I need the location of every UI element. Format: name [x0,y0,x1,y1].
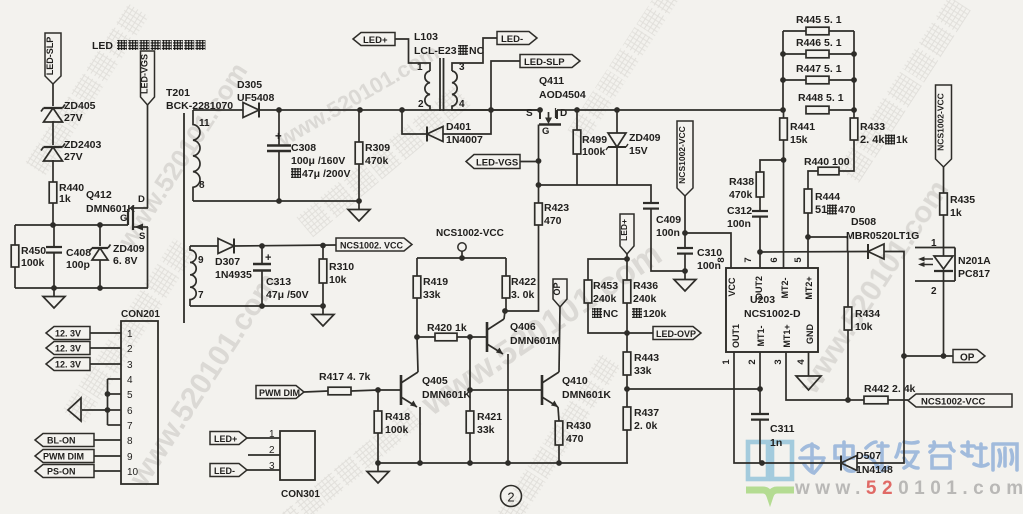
wire gate node horizontal [15,224,128,226]
svg-text:6. 8V: 6. 8V [113,255,138,267]
junction dot VCC node [682,230,688,236]
emitter arrow Q406 [487,344,503,354]
net flag 12.3V [46,342,90,355]
wire Q405 emitter down [417,406,420,408]
emitter arrow Q405 [401,397,417,407]
svg-text:NCS1002-D: NCS1002-D [744,308,801,320]
emitter arrow Q410 [542,397,558,407]
svg-text:R444: R444 [815,191,840,203]
svg-text:33k: 33k [477,424,495,436]
svg-text:T201: T201 [166,87,190,99]
wire R423 to Q406 collector node [505,225,539,311]
svg-text:NCS1002-VCC: NCS1002-VCC [921,397,986,408]
svg-text:240k: 240k [593,293,617,305]
svg-text:OP: OP [552,282,562,295]
junction dots OP line [901,353,907,359]
svg-text:3: 3 [127,360,133,371]
svg-text:R430: R430 [566,420,591,432]
svg-text:LED-: LED- [501,34,523,45]
net flag LED+ (vertical) [620,214,634,254]
junction dots R420 [414,334,420,340]
net flag PWM DIM (drive) [256,386,304,399]
junction dots gate node [50,222,56,228]
resistor R423 470 [535,203,543,225]
svg-text:100k: 100k [21,257,45,269]
svg-text:15V: 15V [629,145,648,157]
svg-text:R433: R433 [860,121,885,133]
op-amp U203 NCS1002-D [726,268,818,352]
svg-text:www.520101.com: www.520101.com [794,478,1023,499]
svg-text:NCS1002-VCC: NCS1002-VCC [936,93,946,151]
svg-text:G: G [542,126,549,137]
svg-text:NCS1002-VCC: NCS1002-VCC [677,126,687,184]
wire divider top [588,259,627,280]
svg-text:1: 1 [127,329,133,340]
wire 12.3V to CON201 [90,332,121,334]
junction dots bus right [574,107,580,113]
resistor R499 100k [576,110,578,130]
junction dot R443/R437 node [624,386,630,392]
capacitor C313 47u/50V [261,246,263,263]
svg-text:1k: 1k [950,207,962,219]
svg-text:2. 4k: 2. 4k [860,134,885,146]
svg-text:8: 8 [127,436,133,447]
svg-text:15k: 15k [790,134,808,146]
svg-text:5: 5 [793,257,804,263]
resistor R422 3.0k [505,258,507,276]
svg-text:33k: 33k [423,289,441,301]
svg-text:PS-ON: PS-ON [47,467,76,477]
ground (C308/R309) [358,201,360,210]
junction dot base node [467,387,473,393]
wire Q410 base line [470,389,542,391]
svg-text:R447 5. 1: R447 5. 1 [796,63,842,75]
wire LED-SLP flag to bus [491,61,520,110]
resistor R441 15k [783,110,785,118]
wire R440 to gate node [52,203,54,225]
wire Q406 base / R421 node [469,337,471,390]
svg-text:2: 2 [931,286,937,297]
wire aux ground rail [190,305,323,307]
svg-text:C311: C311 [770,423,795,435]
net flag PWM DIM (CON201) [35,450,94,463]
wire primary bottom rail [193,200,359,202]
junction dot R434/R442 node [845,397,851,403]
diode D401 1N4007 [402,110,427,134]
value label C308 alt (CJK or) [291,168,301,178]
svg-text:470: 470 [544,215,562,227]
svg-text:LCL-E23: LCL-E23 [414,45,457,57]
wire R437 to sense rail [627,462,628,464]
svg-text:CON201: CON201 [121,309,160,320]
svg-text:1N4148: 1N4148 [856,464,893,476]
wire L103 pin1 to LED+ flag [395,39,430,71]
capacitor C409 100n [643,202,659,204]
wire BL-ON [94,439,121,441]
svg-text:L103: L103 [414,31,438,43]
resistor R453 240k or NC [584,280,592,303]
wire PWM DIM [94,455,121,457]
svg-text:100μ /160V: 100μ /160V [291,155,345,167]
zener ZD2403 [44,146,63,148]
svg-text:3. 0k: 3. 0k [511,289,535,301]
ground (sense rail) [377,463,379,472]
svg-text:LED-VGS: LED-VGS [140,54,150,94]
svg-text:4: 4 [796,359,807,365]
svg-text:D508: D508 [851,216,876,228]
svg-text:R437: R437 [634,407,659,419]
svg-text:R434: R434 [855,308,880,320]
wire Q405 collector to R419 [417,337,418,372]
resistor R418 100k [377,390,379,411]
capacitor C311 1n [751,413,769,415]
svg-text:NCS1002-VCC: NCS1002-VCC [436,228,504,239]
svg-text:LED-SLP: LED-SLP [524,57,565,68]
svg-text:1: 1 [721,359,732,365]
svg-text:47μ /50V: 47μ /50V [266,289,309,301]
svg-text:R420 1k: R420 1k [427,322,467,334]
wire flag to R435 [943,167,945,193]
svg-text:5: 5 [127,390,133,401]
svg-text:R309: R309 [365,142,390,154]
svg-text:4: 4 [459,99,465,110]
svg-text:1k: 1k [896,134,908,146]
junction dot Q406 collector node [502,308,508,314]
svg-text:2. 0k: 2. 0k [634,420,658,432]
svg-text:ZD2403: ZD2403 [64,139,102,151]
svg-text:470k: 470k [729,189,753,201]
junction dot R438 tap [781,157,787,163]
svg-text:7: 7 [127,421,133,432]
resistor R419 33k [416,258,418,276]
svg-text:MBR0520LT1G: MBR0520LT1G [846,230,919,242]
svg-text:D305: D305 [237,79,262,91]
wire R435 to opto pin1 [943,215,945,256]
net flag NCS1002-VCC (bottom right) [908,394,1012,407]
svg-text:OUT1: OUT1 [731,324,741,348]
svg-text:33k: 33k [634,365,652,377]
svg-text:ZD409: ZD409 [113,243,145,255]
svg-text:LED+: LED+ [214,434,237,444]
svg-text:8: 8 [199,180,205,191]
net flag LED-VGS (main) [466,155,520,169]
net flag LED- (CON301) [210,464,247,477]
svg-text:100n: 100n [727,218,751,230]
junction dot OUT2 node [757,249,763,255]
svg-text:1N4935: 1N4935 [215,269,252,281]
svg-text:47μ /200V: 47μ /200V [302,168,350,180]
svg-text:9: 9 [127,452,133,463]
svg-text:Q412: Q412 [86,189,112,201]
wire ZD2403 to R440 [52,160,54,182]
wire IC pin2 MT1- down [759,352,761,414]
svg-text:LED+: LED+ [363,35,388,46]
wire OP line [904,355,953,357]
wire bus under L103 to Q411 [451,109,540,111]
svg-text:R422: R422 [511,276,536,288]
svg-text:D507: D507 [856,450,881,462]
wire IC pin4 GND [808,352,810,376]
svg-text:2: 2 [507,490,514,505]
svg-text:PWM DIM: PWM DIM [259,388,300,398]
svg-text:CON301: CON301 [281,489,320,500]
capacitor C312 100n [759,197,761,211]
resistor R437 2.0k [626,389,628,407]
net flag BL-ON [35,434,94,447]
wire D307 to VCC label [234,245,336,246]
svg-text:AOD4504: AOD4504 [539,89,586,101]
wire LED+ flag to divider [626,254,628,259]
wire LED+ to CON301 [247,437,280,439]
svg-text:+: + [265,252,271,264]
svg-text:6: 6 [127,406,133,417]
svg-text:R445 5. 1: R445 5. 1 [796,14,842,26]
svg-text:51: 51 [815,204,827,216]
net flag NCS1002-VCC (vertical, center) [677,121,693,196]
zener ZD409 6.8V [99,225,101,246]
svg-text:MT1-: MT1- [756,326,766,347]
svg-text:Q405: Q405 [422,375,448,387]
svg-text:2: 2 [127,344,133,355]
wire IC pin1 OUT1 down to sense rail [734,352,762,463]
svg-text:C308: C308 [291,142,316,154]
wire LED-SLP to ZD405 [52,84,54,106]
wire D508 to OP node [884,252,904,357]
wire emitter sense rail [378,462,628,464]
junction dots aux ground rail [259,303,265,309]
wire 12.3V to CON201 [90,363,121,365]
svg-text:R442 2. 4k: R442 2. 4k [864,383,916,395]
svg-text:10k: 10k [855,321,873,333]
svg-text:R499: R499 [582,134,607,146]
wire D305 to L103 pin2 (main bus left) [259,109,540,111]
wire R440 to R444 [808,171,818,189]
net flag NCS1002.VCC (aux) [336,238,412,251]
svg-text:12. 3V: 12. 3V [55,329,81,339]
wire VCC rail center [417,257,506,259]
svg-text:S: S [139,231,145,242]
wire Q410 collector to OP flag [559,307,560,372]
wire OUT2 line to D508 [760,251,868,254]
svg-text:+: + [275,131,282,143]
svg-text:11: 11 [199,118,210,129]
resistor R443 33k [626,333,628,352]
wire Q412 source down [147,227,149,288]
wire L103 pin3 to LED- flag [452,38,497,71]
wire OVP node to flag [627,332,653,334]
net flag LED- (top) [497,32,537,45]
wire IC pin3 MT1+ to R442 [786,352,848,400]
svg-text:6: 6 [769,257,780,262]
svg-text:R440 100: R440 100 [804,156,850,168]
junction dots pins 5-6 [105,391,111,397]
svg-text:R453: R453 [593,280,618,292]
wire R444 to MT2+ node [807,213,809,237]
svg-text:LED: LED [92,40,113,52]
wire Q406 emitter down [507,354,509,463]
wire Q412 drain to LED-VGS flag [147,105,149,208]
wire LED- to CON301 [247,469,280,471]
svg-text:MT1+: MT1+ [782,324,792,347]
resistor R440 100 [818,167,839,175]
svg-text:9: 9 [198,255,204,266]
svg-text:D401: D401 [446,121,471,133]
svg-text:1N4007: 1N4007 [446,134,483,146]
wire bank right rail [853,31,855,110]
svg-text:R418: R418 [385,411,410,423]
connector CON301 [280,431,315,480]
ground (IC U203) [796,376,821,390]
svg-text:470: 470 [838,204,856,216]
svg-text:VCC: VCC [727,277,737,297]
svg-text:1n: 1n [770,437,782,449]
capacitor C408 100p [53,225,55,247]
net flag LED-SLP (left module) [45,33,61,84]
svg-text:R421: R421 [477,411,502,423]
svg-text:7: 7 [743,257,754,262]
wire 12.3V to CON201 [90,347,121,349]
svg-text:NC: NC [603,308,619,320]
junction dot C310/C409 ground [682,268,688,274]
net flag OP (right) [953,350,985,363]
capacitor C310 100n [684,233,686,248]
svg-text:Q411: Q411 [539,75,564,87]
svg-text:100p: 100p [66,259,90,271]
svg-text:120k: 120k [643,308,667,320]
svg-text:OP: OP [960,353,975,364]
svg-text:2: 2 [747,359,758,364]
svg-text:NCS1002. VCC: NCS1002. VCC [340,241,404,251]
diode D307 1N4935 [190,245,218,247]
wire Q406 collector [504,311,505,319]
svg-text:DMN601K: DMN601K [562,389,611,401]
junction dot LED+ node [624,256,630,262]
junction dot MT2+ node [805,234,811,240]
wire opto pin2 to OP line [943,271,945,356]
net flag 12.3V [46,327,90,340]
svg-text:1k: 1k [59,193,71,205]
wire CON201 pins 4-7 common [108,378,122,380]
svg-text:LED-SLP: LED-SLP [45,37,55,76]
wire VCC node to IC pin8 [685,233,731,268]
svg-text:10k: 10k [329,274,347,286]
page number circle 2 [501,486,522,507]
resistor R450 100k [14,225,16,245]
wire R441 to IC pin6 [783,140,785,268]
resistor R447 5.1 [783,79,806,81]
wire R433 to R440 [839,140,854,171]
zener ZD405 [44,107,63,109]
wire IC pin7 stub [759,252,761,268]
svg-text:N201A: N201A [958,255,991,267]
svg-text:DMN601K: DMN601K [422,389,471,401]
ground (C310) [684,271,686,280]
svg-text:R441: R441 [790,121,815,133]
resistor R430 470 [558,407,559,421]
svg-text:470k: 470k [365,155,389,167]
svg-text:100n: 100n [656,227,680,239]
svg-text:R417 4. 7k: R417 4. 7k [319,371,371,383]
svg-text:Q406: Q406 [510,321,536,333]
svg-text:27V: 27V [64,112,83,124]
resistor R448 5.1 [806,106,829,114]
svg-text:R448 5. 1: R448 5. 1 [798,92,844,104]
wire NCS VCC flag down [684,196,686,233]
light arrows opto [922,258,933,260]
junction dots primary bottom rail [276,198,282,204]
net flag 12.3V [46,358,90,371]
wire D507 to OP node [857,356,904,463]
junction dots aux vcc [259,243,265,249]
junction dot Q405 base [375,387,381,393]
wire MT2+ node to D508 line [808,237,848,252]
wire module ground rail [15,287,148,289]
junction dots sense rail [375,460,381,466]
wire bus Q411 to resistor bank [557,109,783,111]
svg-text:R446 5. 1: R446 5. 1 [796,37,842,49]
net flag LED-SLP (main) [520,55,580,68]
svg-text:R419: R419 [423,276,448,288]
svg-text:27V: 27V [64,151,83,163]
svg-text:LED+: LED+ [619,219,629,241]
svg-text:3: 3 [773,359,784,364]
resistor R446 5.1 [783,53,806,55]
wire current sense line to MT1- [627,388,760,390]
svg-text:7: 7 [198,290,204,301]
ground (left module) [53,288,55,297]
svg-text:4: 4 [127,375,133,386]
resistor R444 51 or 470 [804,189,812,213]
resistor R310 10k [322,246,324,260]
wire MT2+ node to IC pin5 [807,237,809,268]
svg-text:Q410: Q410 [562,375,588,387]
net flag LED+ (top) [353,33,395,46]
svg-text:12. 3V: 12. 3V [55,360,81,370]
resistor R445 5.1 [783,30,806,32]
wire Q411 gate down [538,125,540,204]
resistor R440 1k [49,182,57,203]
svg-text:2: 2 [418,99,424,110]
junction dot C311 bottom [759,460,765,466]
svg-text:G: G [120,213,127,224]
svg-text:R435: R435 [950,194,975,206]
wire gate line to C409 [539,185,652,203]
svg-text:C408: C408 [66,247,91,259]
junction dot VCC rail [459,255,465,261]
wire pin2 CON301 [248,454,280,456]
junction dots gate line [536,158,542,164]
svg-text:PWM DIM: PWM DIM [43,452,84,462]
net flag LED-VGS (left module) [141,51,155,105]
svg-text:LED-VGS: LED-VGS [476,158,518,169]
svg-text:R436: R436 [633,280,658,292]
svg-text:D: D [138,194,145,205]
arrow symbol (chassis return) [68,398,81,421]
wire T201 pin11 to bus [193,109,243,111]
svg-text:12. 3V: 12. 3V [55,344,81,354]
resistor R435 1k [940,193,948,215]
resistor R433 2.4k or 1k [853,110,855,118]
resistor R434 10k [847,252,849,308]
wire T201 aux winding 9-7 [190,246,196,306]
capacitor C308 100u/160V [278,110,280,145]
zener ZD409 15V [616,110,618,133]
svg-text:S: S [526,108,533,119]
svg-text:8: 8 [716,257,727,262]
svg-text:C313: C313 [266,276,291,288]
svg-text:MT2+: MT2+ [804,276,814,299]
svg-text:R443: R443 [634,352,659,364]
